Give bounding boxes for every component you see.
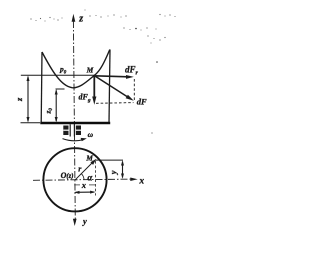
dimension x thin line segments beside label [74,184,80,186]
dimension z line with arrows [27,77,29,121]
vessel right wall [109,50,110,124]
svg-text:x: x [138,176,144,186]
shaft left line [69,124,71,136]
force dFg arrow (vertical, from M down) [93,76,95,98]
vessel left wall [40,52,43,123]
scan noise speckles [30,10,175,134]
svg-text:M: M [86,66,94,75]
vessel bottom [40,122,110,125]
shaft right line [73,124,75,136]
radius r line with arrow to M [75,163,92,180]
parallelogram dashed horizontal [96,102,134,105]
angle alpha arc [81,174,84,180]
horizontal leader from M to y-dimension [95,159,123,161]
dimension z leader tick bottom [21,122,41,124]
axis y arrowhead (bottom) [73,219,77,226]
circle (plan view of vessel) [43,148,106,211]
rotation arrow arc [63,139,85,141]
axis Z (vertical dash-dot centerline through vessel, shaft and circle) [73,21,75,222]
svg-text:O(z): O(z) [61,171,74,180]
svg-text:x: x [81,180,87,190]
axis x arrowhead [130,178,137,182]
svg-text:z: z [78,14,83,25]
svg-text:z: z [14,97,24,102]
bearing block left [63,126,68,136]
paraboloid free surface curve [42,50,110,88]
dimension z0 top tick [56,88,65,90]
free surface level line through point M [21,74,95,76]
svg-text:ω: ω [88,130,94,139]
parallelogram dashed vertical [133,79,135,101]
axis Z arrowhead [72,14,76,22]
svg-text:y: y [82,216,87,226]
dimension z0 line with arrows [55,91,57,122]
dashed vertical through M (lower) [94,161,96,196]
bearing block right [76,126,81,136]
axis x (horizontal dash-dot through circle) [33,179,132,180]
svg-text:y: y [108,170,118,175]
force dF resultant arrow (diagonal from M) [95,76,129,98]
dimension x arrowed line [76,191,95,193]
force dFr arrow (horizontal, from M right) [95,76,129,77]
dimension y line with arrows [122,162,124,178]
svg-text:dF: dF [137,97,147,107]
svg-text:M: M [85,154,93,163]
